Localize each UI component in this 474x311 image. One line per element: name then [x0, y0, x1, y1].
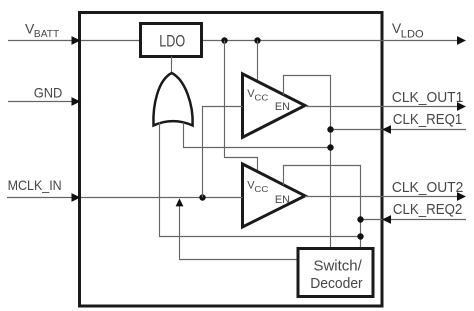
svg-text:CLK_OUT1: CLK_OUT1 — [392, 89, 463, 106]
node dot EN2 / or-gate input1 — [357, 233, 363, 239]
or-gate G1 — [153, 73, 192, 126]
wire MCLK_IN inside to buffer2 input — [81, 197, 243, 199]
node dot A on rail (Vcc2 tap) — [221, 37, 227, 43]
svg-text:CC: CC — [254, 184, 268, 194]
svg-text:EN: EN — [275, 194, 290, 206]
wire or-gate input2 (from CLK_REQ1 net) — [184, 123, 331, 148]
wire buffer1 input branch — [203, 107, 243, 198]
wire CLK_REQ1 — [331, 129, 467, 131]
wire Vcc1 from rail to buffer1 — [257, 41, 259, 84]
wire switch control to MCLK_IN — [180, 206, 299, 260]
svg-text:CLK_REQ1: CLK_REQ1 — [393, 111, 462, 128]
wire EN2 loop (buffer2 enable) — [284, 166, 361, 249]
arrow CLK_OUT2 output — [457, 192, 466, 201]
node dot on MCLK_IN (buffer1 branch) — [199, 194, 205, 200]
buffer U3 (bottom clock buffer) — [243, 164, 306, 227]
node dot EN1 / or-gate input2 — [327, 144, 333, 150]
svg-text:LDO: LDO — [159, 32, 185, 50]
wire or-gate input1 (from CLK_REQ2 net) — [160, 123, 361, 237]
wire Vcc2 from rail to buffer2 — [225, 41, 258, 173]
arrow CLK_OUT1 output — [457, 102, 466, 111]
svg-text:MCLK_IN: MCLK_IN — [8, 177, 62, 193]
svg-text:CLK_OUT2: CLK_OUT2 — [392, 179, 463, 196]
buffer U2 (top clock buffer) — [243, 74, 306, 138]
svg-text:CLK_REQ2: CLK_REQ2 — [393, 201, 462, 218]
svg-text:LDO: LDO — [401, 28, 424, 40]
arrow switch control up to MCLK_IN — [176, 198, 184, 206]
svg-text:GND: GND — [34, 85, 63, 101]
arrow GND into box — [72, 97, 81, 106]
wire VBATT rail inside to LDO — [81, 40, 140, 42]
wire VBATT input — [8, 40, 78, 42]
arrow VBATT into box — [72, 36, 81, 45]
arrow VLDO output — [457, 36, 466, 45]
or-gate G1 output wire to LDO — [171, 57, 173, 75]
svg-text:Switch/: Switch/ — [314, 257, 363, 274]
IC outer box U1 — [80, 13, 383, 307]
svg-text:EN: EN — [275, 101, 290, 113]
arrow CLK_REQ2 into box — [382, 215, 391, 224]
wire buffer1 output CLK_OUT1 — [305, 106, 464, 108]
node dot CLK_REQ1 / EN1 — [327, 126, 333, 132]
wire LDO output rail to VLDO — [203, 40, 464, 42]
wire EN1 loop (buffer1 enable) — [284, 76, 331, 249]
wire MCLK_IN input — [7, 197, 78, 199]
block Switch/Decoder — [298, 249, 373, 297]
svg-text:BATT: BATT — [34, 28, 60, 40]
svg-text:Decoder: Decoder — [310, 275, 363, 292]
regulator LDO — [141, 24, 202, 57]
arrow MCLK_IN into box — [72, 193, 81, 202]
wire buffer2 output CLK_OUT2 — [305, 196, 464, 198]
wire GND input — [8, 101, 78, 103]
wire CLK_REQ2 — [361, 219, 467, 221]
node dot B on rail (Vcc1 tap) — [254, 37, 260, 43]
svg-text:CC: CC — [254, 92, 268, 102]
arrow CLK_REQ1 into box — [382, 125, 391, 134]
node dot CLK_REQ2 / EN2 — [357, 216, 363, 222]
